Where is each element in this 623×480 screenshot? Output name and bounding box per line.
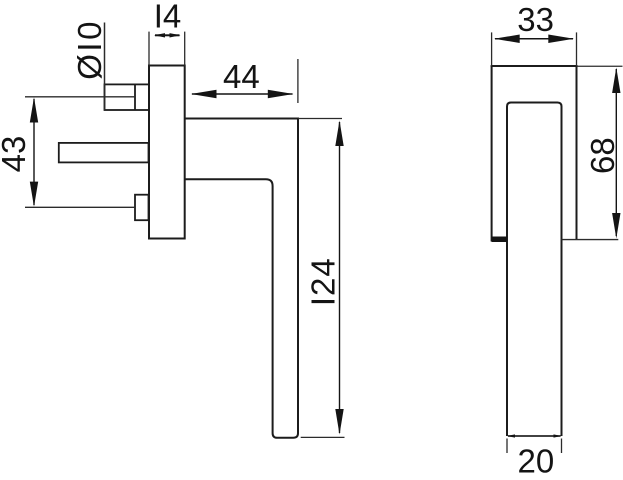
svg-text:I24: I24 bbox=[305, 257, 342, 306]
svg-text:68: 68 bbox=[584, 137, 621, 174]
rosette plate (front view) bbox=[491, 66, 578, 242]
rosette plate (side view) bbox=[149, 66, 185, 239]
dimension 33 extension lines bbox=[492, 32, 577, 66]
square spindle (side view) bbox=[59, 143, 149, 163]
dimension 68 line with arrows bbox=[612, 68, 620, 239]
grip (front view) bbox=[507, 103, 562, 437]
dimension 124 line with arrows bbox=[335, 121, 343, 435]
svg-text:33: 33 bbox=[517, 1, 554, 38]
dimension 43 line with arrows bbox=[30, 97, 38, 207]
dimension 43 extension lines bbox=[25, 97, 135, 208]
fixing boss (side view) bbox=[135, 195, 149, 221]
dimension 20 extension stubs bbox=[507, 439, 562, 454]
svg-text:44: 44 bbox=[223, 58, 260, 95]
svg-text:I4: I4 bbox=[154, 0, 182, 35]
dimension 124 extension lines bbox=[298, 119, 345, 438]
dimension 44 line with arrows bbox=[191, 90, 294, 98]
dimension 33 line with arrows bbox=[494, 35, 574, 43]
spindle pin Ø10 (side view) bbox=[105, 84, 150, 110]
dimension 14 line with arrows bbox=[154, 33, 181, 37]
dimension 20 line with arrows bbox=[507, 434, 562, 437]
plate bottom edge left segment (thick, front view) bbox=[492, 237, 507, 243]
svg-text:ØI0: ØI0 bbox=[71, 19, 108, 80]
dimension 14 extension lines bbox=[149, 32, 185, 66]
dimension 44 extension line bbox=[297, 59, 299, 103]
dimension 68 top extension line bbox=[578, 65, 623, 67]
dimension Ø10 leader line bbox=[104, 23, 106, 111]
svg-text:43: 43 bbox=[0, 136, 32, 173]
handle arm and grip outline (side view) bbox=[185, 119, 298, 438]
plate bottom edge right segment / 68 bottom extension bbox=[562, 239, 619, 241]
svg-text:20: 20 bbox=[518, 443, 555, 480]
